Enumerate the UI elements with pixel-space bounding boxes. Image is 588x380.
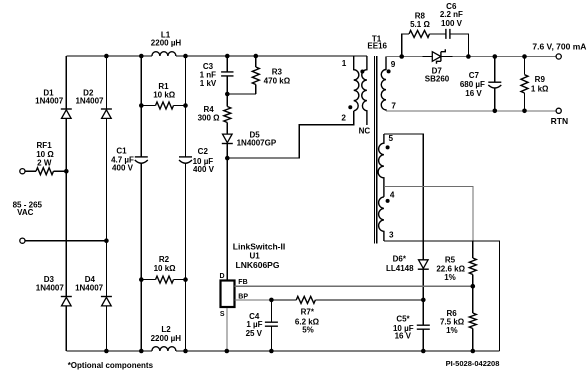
svg-text:EE16: EE16 — [367, 42, 387, 51]
svg-text:C5*: C5* — [396, 314, 410, 323]
svg-text:1: 1 — [342, 59, 347, 68]
svg-text:400 V: 400 V — [112, 164, 134, 173]
resistor R7 — [296, 296, 315, 303]
svg-text:1%: 1% — [444, 273, 456, 282]
wire C2 column — [185, 56, 187, 351]
svg-text:BP: BP — [238, 293, 248, 300]
diode D7 schottky — [423, 49, 453, 63]
diode D6 — [418, 260, 429, 269]
transformer primary winding pin1-pin2 — [348, 56, 359, 111]
diode D2 — [101, 109, 112, 118]
wire R1 link — [141, 105, 185, 107]
transformer bias/shield winding (NC) — [360, 56, 367, 125]
wire AC input line 2 — [25, 240, 106, 242]
svg-text:1N4007: 1N4007 — [75, 284, 104, 293]
svg-text:25 V: 25 V — [246, 329, 263, 338]
svg-text:2 W: 2 W — [37, 158, 52, 167]
wire pin 3 lead to bottom rail — [384, 241, 500, 351]
terminal output return — [556, 108, 561, 113]
svg-text:5.1 Ω: 5.1 Ω — [410, 20, 430, 29]
terminal AC input 1 — [20, 169, 25, 174]
svg-text:1 kΩ: 1 kΩ — [531, 85, 549, 94]
wire FB line (gray) — [235, 285, 473, 287]
diode D1 — [61, 109, 72, 118]
svg-text:7: 7 — [391, 101, 396, 110]
svg-text:LinkSwitch-II: LinkSwitch-II — [233, 241, 285, 251]
svg-text:2200 µH: 2200 µH — [151, 334, 182, 343]
svg-text:*Optional components: *Optional components — [68, 361, 154, 370]
svg-text:PI-5028-042208: PI-5028-042208 — [446, 359, 500, 368]
svg-text:FB: FB — [238, 279, 247, 286]
svg-text:LNK606PG: LNK606PG — [236, 260, 280, 270]
capacitor C7 — [488, 57, 501, 111]
terminal output positive — [556, 54, 561, 59]
op-amp U1 LinkSwitch-II LNK606PG — [221, 281, 235, 308]
diode D3 — [61, 297, 72, 306]
wire pin 5 lead to D6 anode — [384, 134, 423, 260]
svg-text:100 V: 100 V — [441, 19, 463, 28]
capacitor C6 — [446, 29, 450, 39]
svg-text:RTN: RTN — [551, 116, 568, 126]
wire BP line U1 to C4 node (gray) — [235, 299, 272, 301]
resistor RF1 — [36, 168, 54, 175]
transformer feedback winding pin5-pin4 — [378, 134, 390, 197]
resistor R9 — [521, 57, 528, 111]
capacitor C3 — [221, 72, 233, 76]
svg-text:D: D — [219, 273, 224, 280]
capacitor C4 — [265, 300, 278, 351]
svg-text:D6*: D6* — [393, 254, 407, 263]
svg-text:C1: C1 — [116, 146, 127, 155]
svg-text:R7*: R7* — [301, 308, 315, 317]
svg-text:SB260: SB260 — [425, 74, 450, 83]
wire R3 column — [255, 56, 257, 94]
svg-text:R5: R5 — [445, 255, 456, 264]
svg-text:470 kΩ: 470 kΩ — [264, 77, 291, 86]
svg-text:2.2 nF: 2.2 nF — [440, 10, 463, 19]
svg-text:9: 9 — [391, 60, 396, 69]
svg-text:NC: NC — [359, 126, 371, 135]
wire bottom DC rail — [66, 350, 499, 352]
svg-text:16 V: 16 V — [395, 332, 412, 341]
wire top DC rail — [66, 55, 367, 57]
svg-text:L2: L2 — [161, 325, 171, 334]
svg-text:2200 µH: 2200 µH — [151, 39, 182, 48]
transformer feedback winding pin4-pin3 — [379, 197, 390, 241]
resistor R2 — [156, 276, 174, 283]
diode D4 — [101, 297, 112, 306]
wire R8/C6 snubber loop — [402, 34, 469, 57]
wire BP line through R7 to D6/C5 node — [271, 299, 423, 301]
svg-text:16 V: 16 V — [465, 89, 482, 98]
inductor L2 — [152, 347, 176, 351]
svg-text:1 kV: 1 kV — [200, 79, 217, 88]
svg-text:S: S — [220, 311, 225, 318]
wire U1 source to bottom rail (gray) — [226, 308, 228, 351]
svg-text:1N4007: 1N4007 — [35, 97, 64, 106]
transformer core — [375, 56, 377, 244]
resistor R1 — [156, 102, 174, 109]
svg-text:680 µF: 680 µF — [460, 80, 485, 89]
resistor R6 — [469, 313, 476, 351]
svg-text:4: 4 — [390, 191, 395, 200]
svg-text:2: 2 — [341, 113, 346, 122]
svg-text:C2: C2 — [198, 147, 209, 156]
svg-text:1N4007: 1N4007 — [36, 284, 65, 293]
svg-text:C7: C7 — [469, 71, 480, 80]
svg-text:LL4148: LL4148 — [386, 264, 414, 273]
svg-text:7.6 V, 700 mA: 7.6 V, 700 mA — [532, 42, 586, 52]
svg-text:VAC: VAC — [17, 208, 34, 217]
wire D6 cathode through BP node to C5 — [422, 269, 424, 351]
resistor R4 — [224, 107, 231, 123]
diode D5 — [222, 134, 233, 143]
svg-text:R3: R3 — [272, 68, 283, 77]
wire C3-R3 bottom link — [227, 93, 256, 95]
svg-text:300 Ω: 300 Ω — [198, 113, 221, 122]
svg-text:5%: 5% — [302, 326, 314, 335]
capacitor C1 — [135, 157, 148, 163]
svg-text:10 kΩ: 10 kΩ — [153, 91, 176, 100]
wire secondary output top rail (pin 9) — [386, 56, 556, 58]
wire pin 4 lead to R5 (gray) — [384, 186, 473, 241]
svg-text:3: 3 — [389, 230, 394, 239]
resistor R8 — [409, 30, 429, 37]
wire R2 link — [141, 279, 185, 281]
wire C3/R4/D5/U1-drain column — [226, 56, 228, 281]
resistor R5 — [469, 241, 476, 313]
svg-text:400 V: 400 V — [193, 165, 215, 174]
resistor R3 — [252, 67, 259, 85]
capacitor C5 — [417, 325, 430, 329]
capacitor C2 — [179, 157, 192, 163]
wire secondary output bottom rail (pin 7 / RTN) — [386, 110, 556, 112]
wire C1 column — [140, 56, 142, 351]
svg-text:5: 5 — [389, 134, 394, 143]
transformer secondary winding pin9-pin7 — [381, 57, 390, 111]
svg-text:1N4007: 1N4007 — [75, 97, 104, 106]
wire D2/D4 column — [105, 56, 107, 351]
wire primary pin 2 to D5 cathode node — [227, 111, 353, 158]
svg-text:RF1: RF1 — [37, 141, 53, 150]
svg-text:10 kΩ: 10 kΩ — [154, 264, 177, 273]
inductor L1 — [152, 52, 176, 56]
svg-text:R9: R9 — [535, 75, 546, 84]
wire D1/D3 column — [65, 56, 67, 351]
svg-text:1 µF: 1 µF — [246, 320, 262, 329]
svg-text:1N4007GP: 1N4007GP — [237, 139, 277, 148]
terminal AC input 2 — [20, 238, 25, 243]
svg-text:R2: R2 — [159, 255, 170, 264]
wire AC input line 1 — [25, 170, 66, 172]
svg-text:1%: 1% — [446, 326, 458, 335]
